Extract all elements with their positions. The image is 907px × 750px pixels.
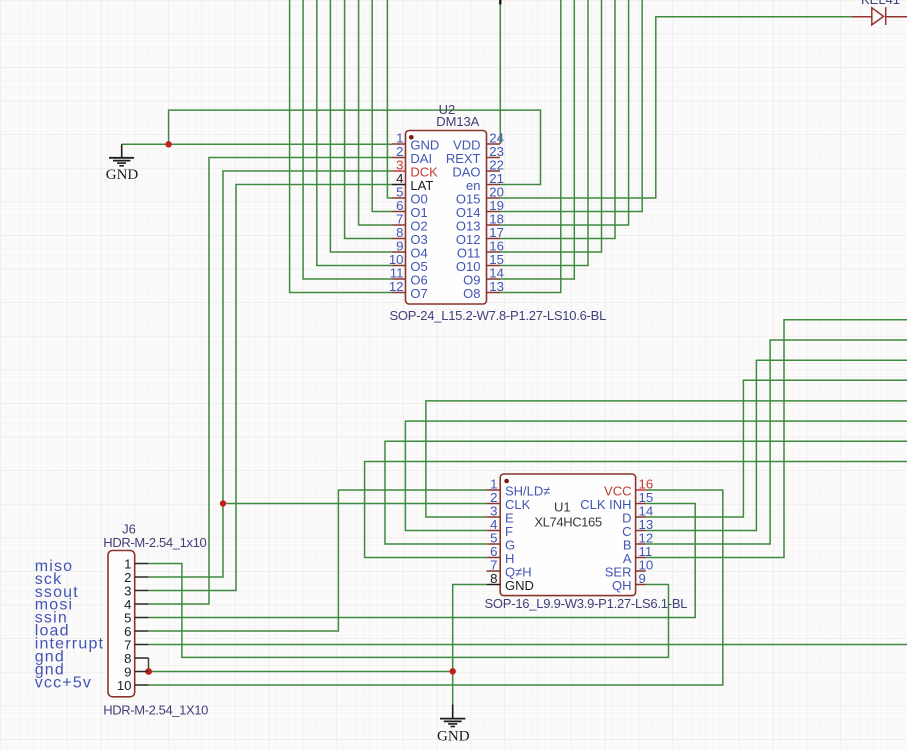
- svg-text:8: 8: [490, 571, 497, 586]
- svg-text:O8: O8: [463, 286, 480, 301]
- svg-text:U1: U1: [554, 500, 571, 515]
- svg-text:vcc+5v: vcc+5v: [35, 675, 92, 692]
- svg-text:GND: GND: [437, 729, 470, 745]
- svg-text:XL74HC165: XL74HC165: [534, 514, 602, 529]
- svg-text:KEL41: KEL41: [861, 0, 900, 7]
- svg-text:12: 12: [389, 279, 404, 294]
- svg-text:HDR-M-2.54_1x10: HDR-M-2.54_1x10: [103, 535, 206, 550]
- svg-text:10: 10: [117, 678, 132, 693]
- svg-text:DM13A: DM13A: [436, 114, 479, 129]
- svg-text:GND: GND: [505, 578, 534, 593]
- svg-text:13: 13: [489, 279, 504, 294]
- svg-text:GND: GND: [106, 167, 139, 183]
- svg-text:SOP-24_L15.2-W7.8-P1.27-LS10.6: SOP-24_L15.2-W7.8-P1.27-LS10.6-BL: [390, 308, 607, 323]
- svg-text:O7: O7: [410, 286, 427, 301]
- svg-text:SOP-16_L9.9-W3.9-P1.27-LS6.1-B: SOP-16_L9.9-W3.9-P1.27-LS6.1-BL: [485, 596, 688, 611]
- svg-text:9: 9: [639, 571, 646, 586]
- svg-text:HDR-M-2.54_1X10: HDR-M-2.54_1X10: [103, 703, 208, 718]
- svg-text:QH: QH: [612, 578, 632, 593]
